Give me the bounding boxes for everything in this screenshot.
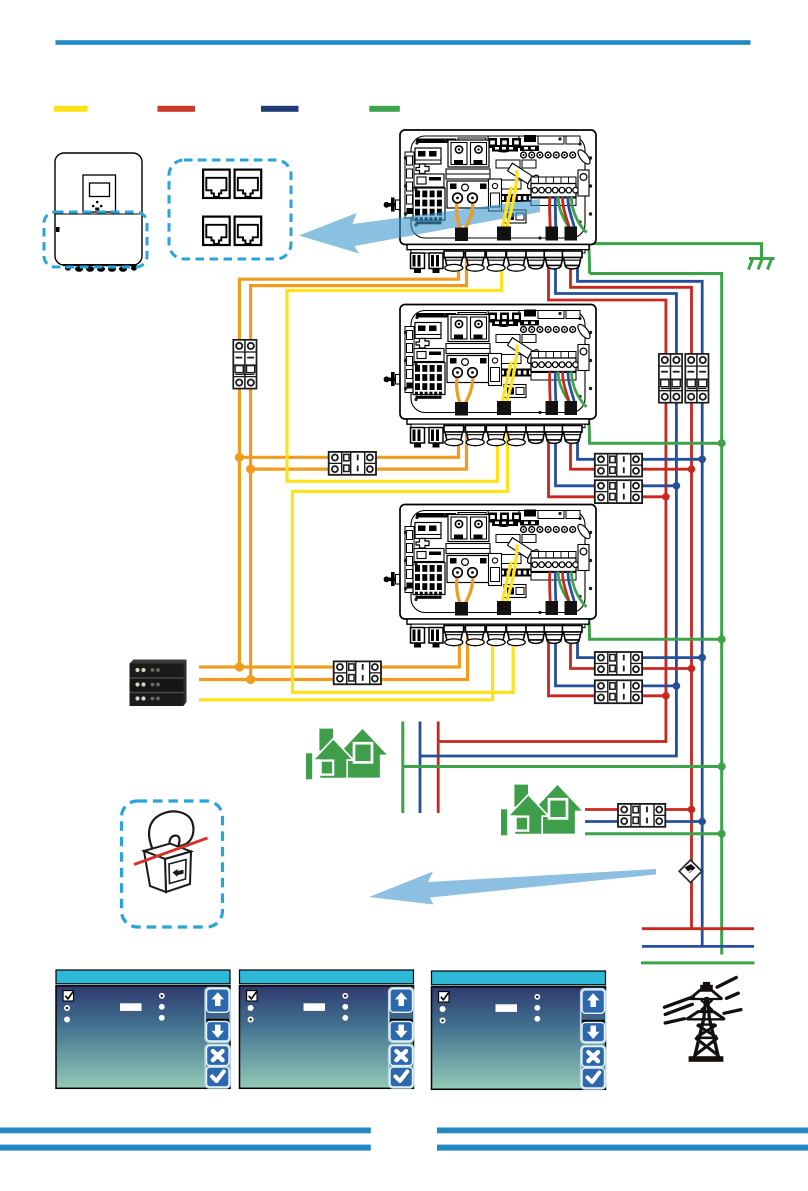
breaker battery 2P (233, 340, 256, 389)
wire yellow parallel inverter2-inverter3 (292, 430, 513, 692)
wire red house1 vertical (437, 722, 440, 814)
wire blue load bus N1 (420, 256, 676, 756)
junction orange nodes (235, 453, 255, 684)
breaker load 2P (659, 354, 682, 403)
inverter 2 (384, 305, 596, 448)
footer line 2 right (437, 1145, 808, 1151)
junction red nodes (662, 465, 695, 813)
wire inverter3 grid L to bus (571, 630, 692, 669)
inverter1 wires over arrow (453, 170, 587, 241)
wire blue grid terminal (642, 945, 754, 948)
wire battery feed and branch to inverter3 (199, 630, 459, 667)
wire red grid terminal (642, 927, 754, 930)
house 1 load (306, 728, 388, 780)
wire yellow battery to inverter3 (199, 630, 493, 700)
legend yellow dash (54, 106, 88, 112)
breaker battery link inverter3 (334, 661, 381, 684)
screen1 selected radios (66, 995, 163, 1010)
inverter 3 (384, 505, 596, 648)
wire inverter2 load L to bus (549, 430, 666, 497)
dashed CT box (122, 801, 223, 927)
battery rack (130, 660, 187, 707)
screen3 selected radios (441, 996, 538, 1022)
wire green grid terminal (641, 961, 755, 964)
inverter 1 (384, 130, 596, 273)
wire inverter2 grid N to bus (578, 430, 703, 459)
top rule (56, 40, 751, 45)
wire inverter2 load N to bus (556, 430, 677, 486)
lcd screen 3 (432, 971, 606, 1089)
wire inverter3 load N to bus (556, 630, 677, 686)
wire green pe stub inverter1 (587, 234, 590, 274)
arrow to CT detail (369, 869, 656, 905)
breaker house2 (618, 804, 665, 827)
wire red grid bus L2 (571, 256, 692, 929)
wire battery+ inverter1 to bus (239, 256, 458, 667)
wire battery branch to inverter2 (239, 430, 458, 457)
wire red house2 to bus (585, 808, 692, 811)
rj45 port A (203, 170, 230, 199)
wire green house1 to bus (403, 765, 722, 768)
footer line 2 left (0, 1145, 371, 1151)
breaker inverter2 load (595, 480, 642, 503)
dashed highlight box on inverter bottom (44, 212, 147, 267)
wire green pe bus (590, 274, 722, 955)
CT meter on grid wire (679, 860, 702, 883)
arrow to communication ports (299, 199, 540, 254)
breaker battery link inverter2 (329, 452, 376, 475)
wire inverter2 grid L to bus (571, 430, 692, 469)
wire battery- inverter1 to bus (251, 256, 467, 680)
screen2 selected radios (249, 995, 346, 1021)
wire green to earth (590, 244, 762, 258)
wire green house1 vertical (401, 722, 404, 814)
house 2 grid (501, 784, 583, 836)
wire inverter3 load L to bus (549, 630, 666, 696)
lcd screen 2 (240, 970, 414, 1088)
lcd screen 1 (56, 970, 230, 1088)
wire blue house2 to bus (585, 820, 702, 823)
breaker grid 2P (685, 354, 708, 403)
breaker inverter2 grid (595, 454, 642, 477)
electricity pylon (665, 978, 741, 1062)
inverter front view (55, 153, 142, 272)
CT clamp (134, 811, 208, 892)
wire blue grid bus N2 (578, 256, 703, 946)
wire green house2 to bus (585, 832, 722, 835)
rj45 port D (235, 217, 262, 246)
wire inverter3 grid N to bus (578, 630, 703, 658)
wire blue house1 vertical (419, 722, 422, 814)
wire green pe stub inverter2 (587, 409, 722, 443)
legend green dash (369, 106, 400, 112)
footer line 1 left (0, 1128, 371, 1134)
legend navy dash (261, 106, 299, 112)
legend red dash (158, 106, 196, 112)
wire yellow parallel inverter1-inverter2 (287, 256, 502, 481)
breaker inverter3 load (595, 680, 642, 703)
junction green nodes (718, 439, 726, 838)
junction blue nodes (673, 456, 706, 826)
rj45 port B (235, 170, 262, 199)
footer line 1 right (437, 1128, 808, 1134)
wire red load bus L1 (438, 256, 666, 742)
breaker inverter3 grid (595, 652, 642, 675)
wire green pe stub inverter3 (587, 609, 722, 639)
dashed communication ports box (169, 160, 291, 259)
ground (749, 259, 775, 270)
rj45 port C (203, 217, 230, 246)
